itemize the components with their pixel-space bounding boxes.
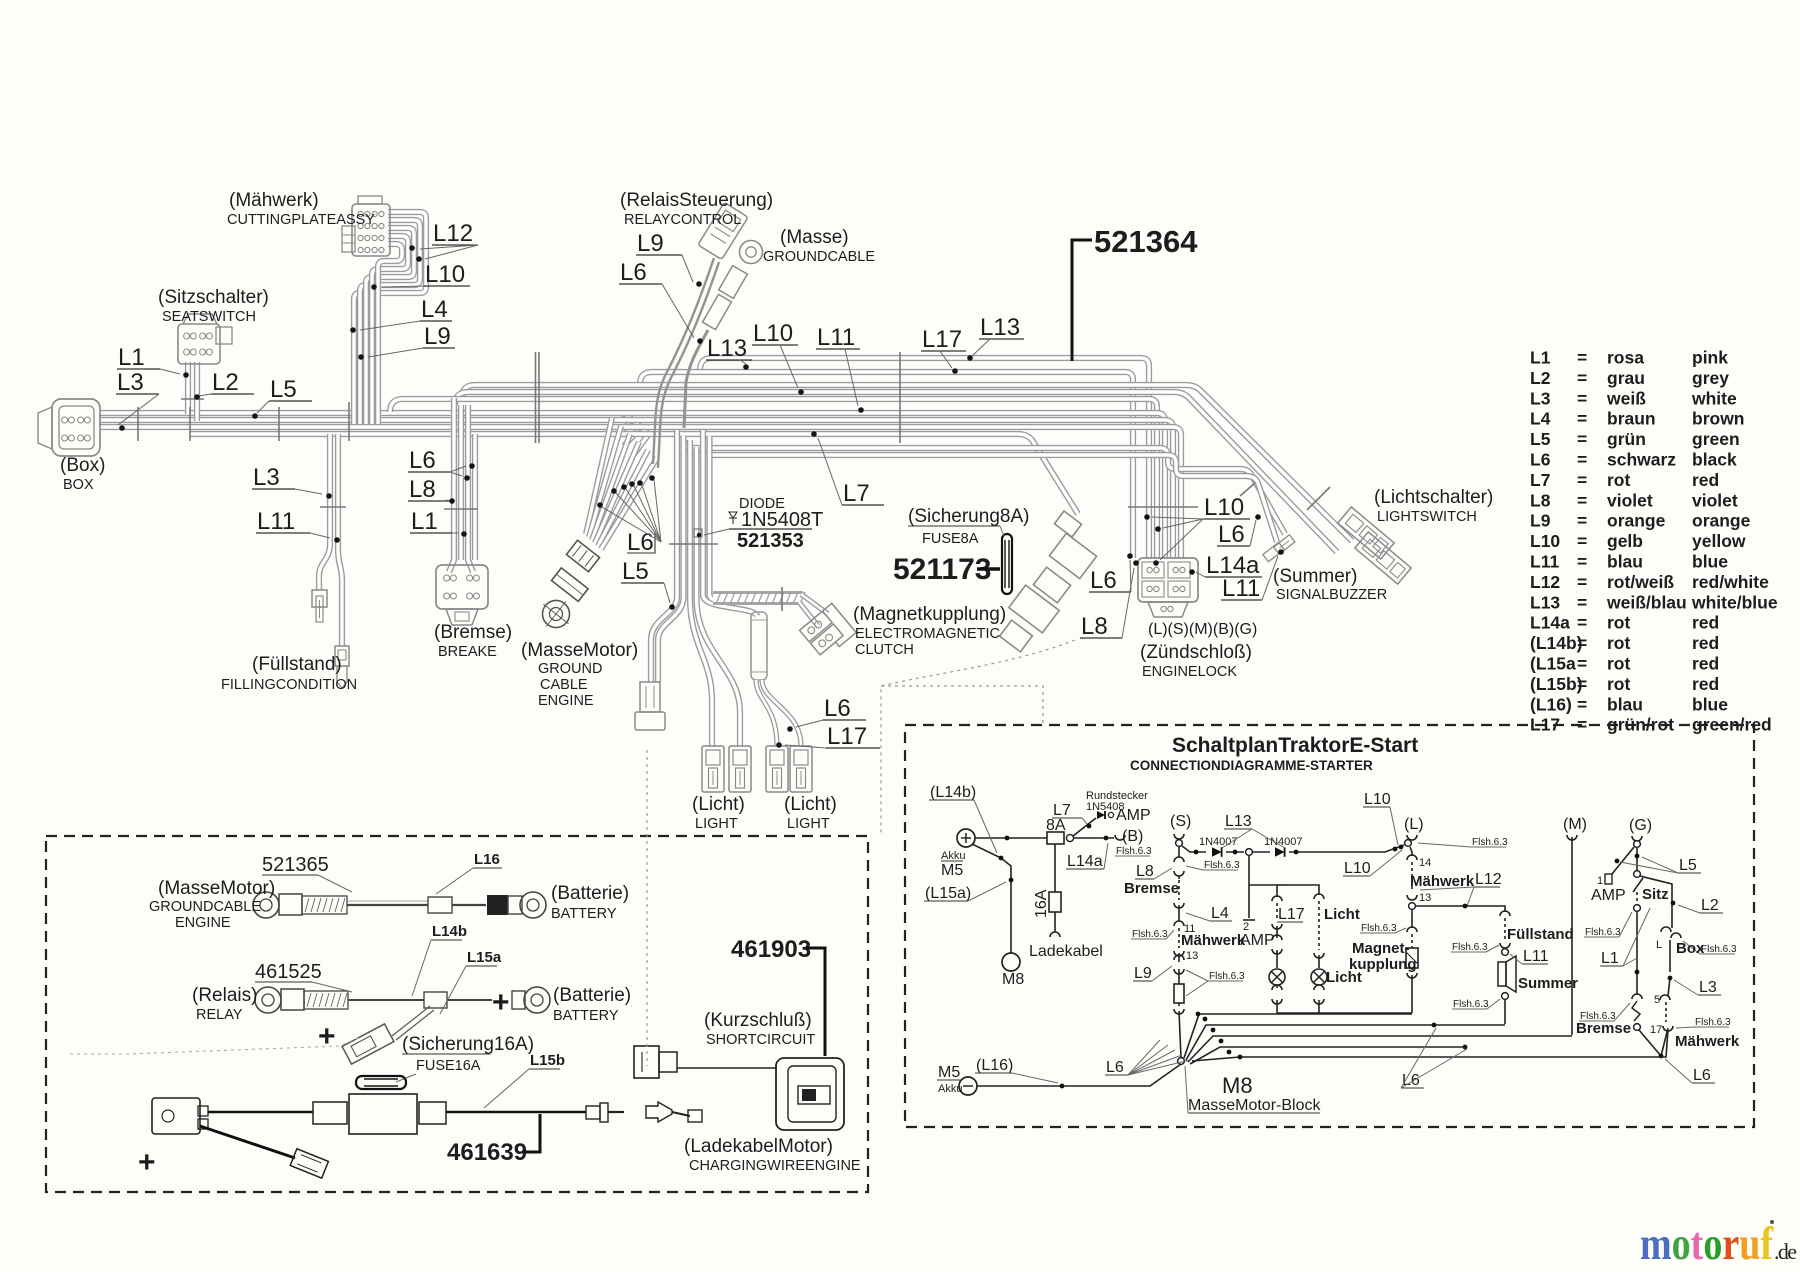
connector cutting plate assy: [352, 204, 390, 256]
association dotted line fuse to box: [881, 640, 1075, 836]
svg-text:521364: 521364: [1094, 224, 1198, 259]
sheath capsule on light wires: [751, 612, 767, 680]
svg-text:white: white: [1691, 388, 1737, 408]
relay battery cable 461525: [255, 987, 281, 1013]
ground bus lines: [1184, 1014, 1412, 1058]
svg-text:M8: M8: [1222, 1073, 1253, 1098]
svg-text:rot: rot: [1607, 470, 1631, 490]
svg-text:L9: L9: [424, 323, 451, 350]
connector light plugs: [702, 746, 724, 792]
svg-text:L7: L7: [843, 480, 870, 507]
svg-text:(B): (B): [1122, 828, 1143, 845]
svg-text:orange: orange: [1607, 511, 1666, 531]
svg-text:BATTERY: BATTERY: [551, 906, 617, 922]
svg-text:L5: L5: [1679, 857, 1697, 874]
svg-text:yellow: yellow: [1692, 531, 1746, 551]
svg-text:521173: 521173: [893, 553, 991, 586]
svg-text:L5: L5: [270, 376, 297, 403]
svg-text:L1: L1: [411, 508, 438, 535]
wire trunk top L13 (y=358): [700, 358, 1149, 558]
svg-text:L6: L6: [627, 529, 654, 556]
wire seat switch drop L2: [194, 362, 200, 421]
svg-text:LIGHTSWITCH: LIGHTSWITCH: [1377, 509, 1477, 525]
svg-text:(Kurzschluß): (Kurzschluß): [704, 1010, 812, 1031]
svg-text:L3: L3: [253, 464, 280, 491]
svg-text:(Magnetkupplung): (Magnetkupplung): [853, 604, 1006, 625]
svg-text:L11: L11: [257, 508, 295, 535]
svg-text:=: =: [1577, 552, 1587, 572]
svg-text:(L14b): (L14b): [930, 784, 976, 801]
svg-text:green: green: [1692, 429, 1740, 449]
ground cable engine ring terminal: [534, 592, 579, 637]
svg-text:SEATSWITCH: SEATSWITCH: [162, 309, 256, 325]
svg-text:1N5408T: 1N5408T: [741, 509, 823, 531]
S column L9 fuse link: [1178, 953, 1180, 962]
svg-text:Flsh.6.3: Flsh.6.3: [1585, 927, 1621, 938]
svg-text:L14a: L14a: [1530, 613, 1570, 633]
svg-text:=: =: [1577, 511, 1587, 531]
dashed box schematic: [905, 725, 1754, 1127]
svg-text:GROUNDCABLE: GROUNDCABLE: [763, 249, 875, 265]
svg-text:Flsh.6.3: Flsh.6.3: [1701, 944, 1737, 955]
svg-text:L12: L12: [1530, 572, 1560, 592]
svg-text:=: =: [1577, 409, 1587, 429]
svg-text:L14b: L14b: [432, 923, 467, 940]
svg-text:(Zündschloß): (Zündschloß): [1140, 642, 1252, 663]
ground cable engine crimp and sleeve: [566, 540, 599, 571]
svg-text:Licht: Licht: [1324, 906, 1360, 923]
wire trunk (y=420): [100, 420, 640, 446]
svg-text:L2: L2: [1701, 897, 1719, 914]
bullet connector: [586, 1106, 600, 1119]
svg-text:L1: L1: [1530, 348, 1551, 368]
svg-text:L8: L8: [409, 476, 436, 503]
svg-text:BATTERY: BATTERY: [553, 1008, 619, 1024]
svg-text:(M): (M): [1563, 816, 1587, 833]
svg-text:1: 1: [1597, 875, 1603, 887]
svg-text:(MasseMotor): (MasseMotor): [521, 640, 638, 661]
svg-text:(L): (L): [1404, 816, 1424, 833]
svg-text:gelb: gelb: [1607, 531, 1643, 551]
svg-text:=: =: [1577, 674, 1587, 694]
svg-text:CLUTCH: CLUTCH: [855, 642, 914, 658]
svg-text:L2: L2: [1530, 368, 1551, 388]
fuse 8A symbol: [1002, 534, 1012, 594]
charging cable L15b: [152, 1098, 200, 1134]
wire battery to M8 stud: [972, 844, 1011, 953]
svg-text:orange: orange: [1692, 511, 1751, 531]
svg-text:grey: grey: [1692, 368, 1729, 388]
svg-text:L1: L1: [1601, 950, 1619, 967]
charging socket connector: [776, 1058, 844, 1130]
wire trunk top (y=372): [640, 372, 1133, 558]
svg-text:=: =: [1577, 470, 1587, 490]
svg-text:=: =: [1577, 490, 1587, 510]
svg-text:=: =: [1577, 368, 1587, 388]
svg-text:FILLINGCONDITION: FILLINGCONDITION: [221, 677, 357, 693]
wire stem bundle: [651, 430, 677, 682]
svg-text:13: 13: [1419, 892, 1431, 904]
svg-text:L11: L11: [1530, 552, 1559, 572]
wire masse-motor fan diagonals: [586, 418, 612, 534]
svg-text:Flsh.6.3: Flsh.6.3: [1209, 971, 1245, 982]
svg-text:blau: blau: [1607, 552, 1643, 572]
svg-text:violet: violet: [1692, 490, 1738, 510]
svg-text:5: 5: [1654, 994, 1660, 1006]
svg-text:red: red: [1692, 633, 1719, 653]
svg-text:weiß/blau: weiß/blau: [1606, 592, 1687, 612]
svg-text:14: 14: [1419, 857, 1431, 869]
svg-text:L13: L13: [707, 335, 747, 362]
svg-text:(Batterie): (Batterie): [551, 883, 629, 904]
svg-text:(Licht): (Licht): [784, 794, 837, 815]
svg-text:GROUND: GROUND: [538, 661, 602, 677]
svg-text:(Licht): (Licht): [692, 794, 745, 815]
svg-text:blau: blau: [1607, 694, 1643, 714]
connector Box: [52, 399, 100, 456]
svg-text:(Lichtschalter): (Lichtschalter): [1374, 487, 1493, 508]
svg-text:red: red: [1692, 654, 1719, 674]
svg-text:Bremse: Bremse: [1576, 1020, 1631, 1037]
svg-text:L15b: L15b: [530, 1052, 565, 1069]
connector L5 plug: [640, 682, 660, 712]
svg-text:Mähwerk: Mähwerk: [1675, 1033, 1740, 1050]
svg-text:2: 2: [1243, 921, 1249, 933]
svg-text:rot/weiß: rot/weiß: [1607, 572, 1674, 592]
svg-text:(Box): (Box): [60, 455, 105, 476]
svg-text:17: 17: [1650, 1024, 1662, 1036]
wire trunk (y=427) right part into ignition: [636, 427, 1181, 558]
connector signal buzzer terminals: [1274, 535, 1295, 554]
svg-text:pink: pink: [1692, 348, 1728, 368]
wire trunk L7 (y=434) to fuse cable: [190, 434, 1078, 514]
ground cable ring terminal (Masse): [740, 241, 763, 264]
svg-text:L6: L6: [1090, 567, 1117, 594]
svg-text:L10: L10: [1344, 860, 1371, 877]
licht columns: [1276, 885, 1278, 897]
svg-text:BREAKE: BREAKE: [438, 644, 497, 660]
svg-text:red: red: [1692, 613, 1719, 633]
svg-text:L4: L4: [1530, 409, 1551, 429]
svg-text:RELAY: RELAY: [196, 1007, 243, 1023]
svg-text:FUSE8A: FUSE8A: [922, 531, 979, 547]
connector seat switch: [178, 324, 220, 364]
svg-text:L8: L8: [1081, 613, 1108, 640]
svg-text:rot: rot: [1607, 654, 1631, 674]
svg-text:L3: L3: [1530, 388, 1551, 408]
svg-text:violet: violet: [1607, 490, 1653, 510]
svg-text:L4: L4: [421, 296, 448, 323]
svg-text:(Summer): (Summer): [1273, 566, 1357, 587]
svg-text:L8: L8: [1530, 490, 1551, 510]
svg-text:Mähwerk: Mähwerk: [1181, 932, 1246, 949]
fuse 8A: [1047, 832, 1064, 844]
svg-text:L10: L10: [1204, 494, 1244, 521]
wire trunk (y=427): [100, 427, 648, 454]
svg-text:L7: L7: [1530, 470, 1550, 490]
svg-text:L17: L17: [1278, 906, 1305, 923]
svg-text:L15a: L15a: [467, 949, 502, 966]
svg-text:(Sitzschalter): (Sitzschalter): [158, 287, 269, 308]
svg-text:(Füllstand): (Füllstand): [252, 654, 342, 675]
svg-text:L10: L10: [1530, 531, 1560, 551]
svg-text:(L15a): (L15a): [925, 885, 971, 902]
svg-text:=: =: [1577, 450, 1587, 470]
connector brake: [436, 565, 488, 609]
connector filling condition blade: [312, 590, 327, 607]
svg-text:521365: 521365: [262, 854, 329, 876]
connector filling condition plug: [335, 646, 349, 666]
svg-text:red: red: [1692, 470, 1719, 490]
svg-text:Flsh.6.3: Flsh.6.3: [1132, 929, 1168, 940]
wire fuse to diode AMP: [1073, 818, 1096, 836]
svg-text:grün: grün: [1607, 429, 1646, 449]
svg-text:L16: L16: [474, 851, 500, 868]
svg-text:+: +: [138, 1146, 156, 1179]
svg-text:M5: M5: [941, 862, 963, 879]
svg-text:L10: L10: [1364, 791, 1391, 808]
clamp marks: [137, 407, 139, 441]
svg-text:(L16): (L16): [1530, 694, 1572, 714]
svg-text:L7: L7: [1053, 802, 1071, 819]
svg-text:L6: L6: [1530, 450, 1551, 470]
svg-text:SchaltplanTraktorE-Start: SchaltplanTraktorE-Start: [1172, 734, 1418, 757]
svg-text:=: =: [1577, 654, 1587, 674]
svg-text:Flsh.6.3: Flsh.6.3: [1472, 837, 1508, 848]
black branch cable: [200, 1126, 295, 1158]
svg-text:blue: blue: [1692, 694, 1728, 714]
svg-text:Summer: Summer: [1518, 975, 1578, 992]
svg-text:=: =: [1577, 694, 1587, 714]
svg-text:L: L: [1656, 939, 1662, 951]
svg-text:red: red: [1692, 674, 1719, 694]
svg-text:Flsh.6.3: Flsh.6.3: [1452, 942, 1488, 953]
wire loom to magnetic clutch (sheathed): [713, 591, 803, 605]
svg-text:8A: 8A: [1046, 817, 1066, 834]
svg-text:L3: L3: [117, 369, 144, 396]
branch to füllstand summer column: [1416, 906, 1505, 912]
svg-text:=: =: [1577, 572, 1587, 592]
svg-text:13: 13: [1186, 950, 1198, 962]
svg-text:RELAYCONTROL: RELAYCONTROL: [624, 212, 741, 228]
svg-text:M8: M8: [1002, 971, 1024, 988]
svg-text:L6: L6: [409, 447, 436, 474]
svg-text:461903: 461903: [731, 936, 811, 963]
svg-text:16A: 16A: [1033, 889, 1050, 918]
svg-text:(G): (G): [1629, 817, 1652, 834]
svg-text:ENGINE: ENGINE: [175, 915, 231, 931]
svg-text:(L)(S)(M)(B)(G): (L)(S)(M)(B)(G): [1148, 621, 1257, 638]
svg-text:rot: rot: [1607, 613, 1631, 633]
svg-text:AMP: AMP: [1591, 887, 1626, 904]
svg-text:1N5408: 1N5408: [1086, 801, 1125, 813]
svg-text:+: +: [318, 1020, 336, 1053]
svg-text:L10: L10: [753, 320, 793, 347]
battery plus terminal M5: [957, 829, 975, 847]
wire seat switch drop L1: [185, 362, 191, 414]
diode row wire: [1182, 846, 1206, 852]
svg-text:FUSE16A: FUSE16A: [416, 1058, 481, 1074]
svg-text:=: =: [1577, 531, 1587, 551]
wire trunk lower L17 (y=455) to buzzer: [692, 447, 1277, 542]
S column brake switch: [1178, 847, 1180, 858]
svg-text:Bremse: Bremse: [1124, 880, 1179, 897]
svg-text:(MasseMotor): (MasseMotor): [158, 878, 275, 899]
svg-text:Akku: Akku: [941, 850, 965, 862]
svg-text:L9: L9: [637, 230, 664, 257]
svg-text:(L14b): (L14b): [1530, 633, 1583, 653]
svg-text:=: =: [1577, 633, 1587, 653]
svg-text:L12: L12: [433, 220, 473, 247]
wire trunk (y=420) right part into ignition: [628, 420, 1173, 558]
svg-text:MasseMotor-Block: MasseMotor-Block: [1188, 1097, 1321, 1114]
svg-text:L17: L17: [827, 723, 867, 750]
wires brake drop L6/L8/L1: [449, 398, 454, 572]
svg-text:Flsh.6.3: Flsh.6.3: [1204, 860, 1240, 871]
svg-text:L6: L6: [620, 259, 647, 286]
svg-text:LIGHT: LIGHT: [695, 816, 738, 832]
spade connector: [646, 1102, 672, 1122]
svg-text:L11: L11: [1222, 575, 1260, 602]
wire trunk (y=399) into ignition bundle: [390, 399, 1157, 558]
brake switch G column: [1632, 994, 1642, 999]
svg-text:(Relais): (Relais): [192, 985, 257, 1006]
connector engine lock (ignition): [1138, 558, 1198, 602]
svg-text:red/white: red/white: [1692, 572, 1769, 592]
svg-text:L5: L5: [622, 558, 649, 585]
svg-text:L6: L6: [1106, 1059, 1124, 1076]
wire trunk (y=385) to lightswitch: [462, 385, 1352, 541]
svg-text:CONNECTIONDIAGRAMME-STARTER: CONNECTIONDIAGRAMME-STARTER: [1130, 758, 1373, 773]
battery ground cable 521365: [253, 892, 279, 918]
svg-text:AMP: AMP: [1240, 932, 1275, 949]
summer speaker: [1498, 962, 1506, 986]
fuse 16A symbol: [356, 1076, 406, 1089]
svg-text:L6: L6: [1693, 1067, 1711, 1084]
S column mähwerk contacts: [1174, 921, 1184, 926]
svg-text:kupplung: kupplung: [1349, 956, 1417, 973]
svg-text:(Sicherung16A): (Sicherung16A): [402, 1034, 534, 1055]
svg-text:L11: L11: [1523, 948, 1549, 965]
svg-text:L17: L17: [922, 326, 962, 353]
svg-text:L5: L5: [1530, 429, 1551, 449]
svg-text:L4: L4: [1211, 905, 1229, 922]
svg-text:L13: L13: [1225, 813, 1252, 830]
svg-text:weiß: weiß: [1606, 388, 1646, 408]
dashed box battery cables: [46, 836, 868, 1192]
sitz L2 branch to box: [1640, 876, 1672, 928]
svg-text:(S): (S): [1170, 813, 1191, 830]
svg-text:CABLE: CABLE: [540, 677, 588, 693]
association dotted line relay fuse: [70, 1037, 360, 1054]
svg-text:Flsh.6.3: Flsh.6.3: [1453, 999, 1489, 1010]
AMP 2 column: [1248, 856, 1250, 918]
battery minus and L16 bus: [959, 1077, 977, 1095]
svg-text:CUTTINGPLATEASSY: CUTTINGPLATEASSY: [227, 212, 375, 228]
svg-text:black: black: [1692, 450, 1737, 470]
svg-text:L12: L12: [1475, 871, 1502, 888]
svg-text:461639: 461639: [447, 1139, 527, 1166]
svg-text:(Batterie): (Batterie): [553, 985, 631, 1006]
svg-text:BOX: BOX: [63, 477, 94, 493]
svg-text:LIGHT: LIGHT: [787, 816, 830, 832]
wire trunk lower L6 (y=448) to buzzer: [684, 440, 1285, 534]
svg-text:blue: blue: [1692, 552, 1728, 572]
svg-text:(Bremse): (Bremse): [434, 622, 512, 643]
svg-text:=: =: [1577, 429, 1587, 449]
svg-text:L8: L8: [1136, 863, 1154, 880]
svg-text:=: =: [1577, 592, 1587, 612]
ground cable tail into stem: [684, 330, 708, 428]
svg-text:SIGNALBUZZER: SIGNALBUZZER: [1276, 587, 1387, 603]
svg-text:=: =: [1577, 348, 1587, 368]
svg-text:L6: L6: [1218, 521, 1245, 548]
svg-text:(L16): (L16): [976, 1057, 1013, 1074]
wire battery to fuse 8A: [975, 837, 1047, 839]
svg-text:.de: .de: [1774, 1239, 1797, 1264]
svg-text:CHARGINGWIREENGINE: CHARGINGWIREENGINE: [689, 1158, 861, 1174]
svg-text:(Mähwerk): (Mähwerk): [229, 190, 319, 211]
relay control cable L9/L6: [658, 262, 719, 468]
svg-text:(Sicherung8A): (Sicherung8A): [908, 506, 1029, 527]
association dotted line light to shortcircuit: [646, 750, 648, 1066]
svg-text:L9: L9: [1530, 511, 1551, 531]
svg-text:L9: L9: [1134, 965, 1152, 982]
svg-text:L13: L13: [980, 314, 1020, 341]
svg-text:461525: 461525: [255, 961, 322, 983]
svg-text:ENGINE: ENGINE: [538, 693, 594, 709]
svg-text:braun: braun: [1607, 409, 1656, 429]
wire trunk L5/L3 upper (y=413): [100, 413, 632, 438]
svg-text:M5: M5: [938, 1064, 960, 1081]
svg-text:rot: rot: [1607, 633, 1631, 653]
svg-text:(RelaisSteuerung): (RelaisSteuerung): [620, 190, 773, 211]
svg-text:GROUNDCABLE: GROUNDCABLE: [149, 899, 261, 915]
svg-text:L10: L10: [425, 261, 465, 288]
svg-text:L6: L6: [1402, 1072, 1420, 1089]
svg-text:+: +: [492, 986, 510, 1019]
svg-text:Flsh.6.3: Flsh.6.3: [1361, 923, 1397, 934]
diode splice on stem: [694, 529, 702, 537]
relay control connector: [698, 202, 748, 259]
connector light switch: [1338, 507, 1394, 559]
svg-text:L3: L3: [1699, 979, 1717, 996]
svg-text:SHORTCIRCUIT: SHORTCIRCUIT: [706, 1032, 815, 1048]
svg-text:(Masse): (Masse): [780, 227, 849, 248]
svg-text:L11: L11: [817, 324, 855, 351]
svg-text:Flsh.6.3: Flsh.6.3: [1116, 846, 1152, 857]
wire trunk (y=413) right part into ignition: [620, 413, 1165, 558]
svg-text:brown: brown: [1692, 409, 1745, 429]
svg-text:L14a: L14a: [1067, 853, 1103, 870]
svg-text:ENGINELOCK: ENGINELOCK: [1142, 664, 1237, 680]
svg-text:=: =: [1577, 613, 1587, 633]
svg-text:Box: Box: [1676, 940, 1705, 957]
wire füllstand drop L3/L11: [319, 434, 330, 590]
wires capsule to second light pair: [756, 680, 777, 746]
svg-text:Akku: Akku: [938, 1083, 962, 1095]
svg-text:Magnet-: Magnet-: [1352, 940, 1410, 957]
svg-text:L13: L13: [1530, 592, 1560, 612]
svg-text:=: =: [1577, 388, 1587, 408]
wires cutting plate bundle wrap: [354, 212, 426, 424]
svg-text:Flsh.6.3: Flsh.6.3: [1695, 1017, 1731, 1028]
svg-text:(LadekabelMotor): (LadekabelMotor): [684, 1136, 833, 1157]
svg-text:rosa: rosa: [1607, 348, 1644, 368]
svg-text:rot: rot: [1607, 674, 1631, 694]
svg-text:(L15a: (L15a: [1530, 654, 1576, 674]
wire 16A charging branch: [1054, 844, 1056, 892]
